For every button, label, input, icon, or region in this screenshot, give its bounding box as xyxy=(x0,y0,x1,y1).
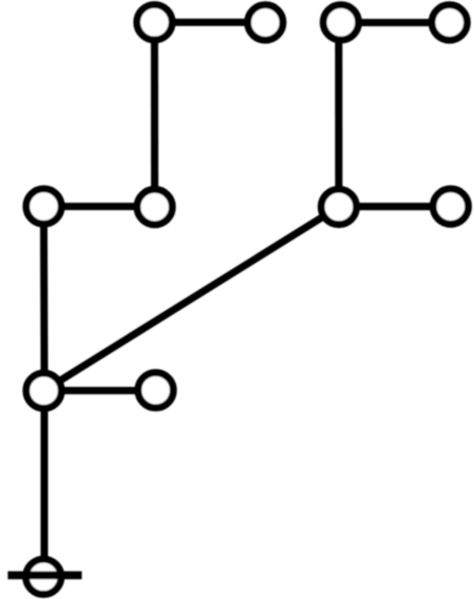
node 2 xyxy=(248,5,283,40)
node 3 xyxy=(323,5,358,40)
wire V2 node3-node7 xyxy=(335,22,342,207)
node 9 xyxy=(26,373,61,408)
node 5 xyxy=(26,189,61,224)
wire D1 diagonal node7-node9 xyxy=(44,207,339,391)
node 8 xyxy=(433,189,468,224)
wire W3 node5-node6 xyxy=(44,203,155,210)
node 6 xyxy=(137,189,172,224)
wire W1 node1-node2 xyxy=(155,19,266,26)
wire W5 node9-node10 xyxy=(44,387,156,394)
node 10 xyxy=(138,373,173,408)
wire V3 node5-node9 xyxy=(40,206,48,390)
node 7 xyxy=(321,189,356,224)
ground terminal circle xyxy=(26,559,61,594)
wire W4 node7-node8 xyxy=(339,203,451,210)
ground terminal bar xyxy=(8,571,82,579)
wire V1 node1-node6 xyxy=(151,22,159,207)
node 1 xyxy=(137,5,172,40)
wire V4 node9-ground xyxy=(41,391,48,577)
node 4 xyxy=(432,5,467,40)
wire W2 node3-node4 xyxy=(341,19,450,26)
